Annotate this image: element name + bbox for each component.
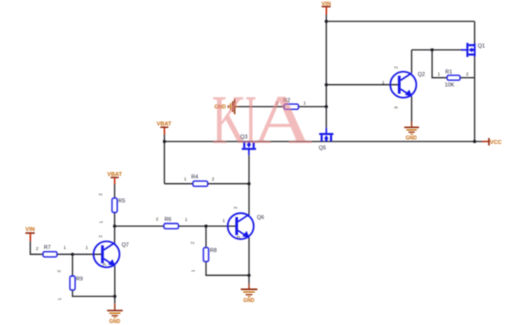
power VCC bar (488, 138, 490, 146)
resistor R7 body (43, 252, 57, 257)
wire Q3 drain down to Q6 collector (248, 155, 250, 215)
wire Q2 base (326, 84, 400, 86)
ground G2 earth bars (404, 127, 419, 135)
svg-text:R7: R7 (44, 245, 51, 251)
ground G4 below Q7 stub (114, 303, 115, 310)
ground G3 below Q6 stub (248, 284, 249, 289)
wire R6 pin1 to Q6 base (178, 225, 237, 227)
wire main horizontal rail VBAT to VCC (164, 141, 482, 143)
wire R8 bottom to Q6 emitter net (206, 262, 249, 276)
power VIN left bar (25, 232, 34, 234)
power VCC red wire segment (482, 141, 489, 142)
svg-text:2: 2 (212, 177, 215, 182)
wire Q6 emitter to ground (248, 237, 250, 283)
resistor R6 body (164, 224, 179, 229)
transistor Q3 nmos hanging below rail (242, 141, 256, 155)
junction R4 pin2 tee (247, 182, 250, 185)
junction Q7 emitter tee (113, 295, 116, 298)
wire R4 pin2 to Q3 net (208, 183, 249, 185)
svg-text:2: 2 (98, 235, 103, 238)
junction R5 bottom tee (113, 225, 116, 228)
ground G3 earth bars (241, 289, 258, 298)
resistor R4 body (193, 181, 208, 186)
svg-text:A: A (252, 81, 313, 159)
transistor Q1 nmos rotated gate-left (461, 43, 475, 57)
power VIN top red stub (326, 7, 328, 14)
wire Q2 collector (411, 50, 413, 73)
svg-text:Q5: Q5 (319, 146, 326, 152)
svg-text:1: 1 (57, 297, 62, 300)
svg-text:K: K (212, 80, 247, 158)
svg-text:3: 3 (394, 106, 399, 109)
resistor R8 body vertical (203, 248, 208, 262)
wire top rail VIN to Q1 (326, 20, 474, 22)
svg-text:1: 1 (223, 218, 226, 223)
junction drain vertical on VCC rail (473, 140, 476, 143)
wire VIN vertical down to Q5 gate (325, 14, 327, 128)
svg-text:1: 1 (63, 245, 66, 250)
svg-text:2: 2 (233, 206, 238, 209)
svg-text:1: 1 (191, 269, 196, 272)
power VBAT left bar (111, 177, 119, 178)
wire VBAT drop through rail down to R4 (163, 134, 165, 183)
wire R5 junction to R6 pin2 (115, 225, 164, 227)
ground G1 sideways earth bars (228, 99, 239, 114)
junction Q2 base on VIN net (325, 83, 328, 86)
transistor Q5 nmos on rail (319, 128, 333, 142)
wire R7 pin1 to Q7 base (57, 253, 103, 255)
svg-text:Q6: Q6 (257, 215, 264, 221)
svg-text:GND: GND (109, 319, 121, 325)
svg-text:2: 2 (36, 246, 39, 251)
svg-text:GND: GND (243, 298, 255, 304)
svg-text:3: 3 (102, 263, 107, 266)
wire R1 pin2 to drain vertical (460, 77, 474, 79)
svg-text:2: 2 (156, 217, 159, 222)
svg-text:R1: R1 (445, 70, 452, 76)
svg-text:1: 1 (99, 220, 104, 223)
wire VBAT2 to R5 top (114, 184, 116, 198)
svg-text:1: 1 (185, 217, 188, 222)
wire ground to R2 pin2 (238, 106, 284, 108)
wire R5 bottom through junction to Q7 collector (114, 213, 116, 244)
power VIN left red stub (30, 234, 32, 242)
junction VBAT corner on rail (163, 140, 166, 143)
svg-text:2: 2 (190, 241, 195, 244)
wire Q7 emitter to ground (114, 266, 116, 303)
transistor Q7 (94, 241, 120, 267)
ground G4 earth bars (107, 310, 123, 318)
wire Q2 emitter (411, 96, 413, 121)
svg-text:1: 1 (184, 177, 187, 182)
svg-text:VCC: VCC (490, 140, 502, 146)
svg-text:R4: R4 (191, 174, 198, 180)
svg-text:R8: R8 (210, 248, 217, 254)
junction Q6 emitter tee (247, 274, 250, 277)
wire R1 pin1 drop from gate net (432, 50, 447, 78)
svg-text:R6: R6 (165, 217, 172, 223)
wire R9 bottom to Q7 emitter net (73, 290, 115, 296)
power VBAT left red stub (114, 178, 116, 184)
transistor Q6 (228, 213, 254, 239)
svg-text:R9: R9 (76, 276, 83, 282)
resistor R1 10K body (447, 75, 460, 80)
transistor Q2 (390, 72, 416, 98)
svg-text:1: 1 (85, 245, 88, 250)
wire R2 pin1 to VIN net (299, 106, 327, 108)
wire Q1 gate net (412, 49, 462, 51)
junction VIN top tee (325, 20, 328, 23)
svg-text:2: 2 (98, 193, 103, 196)
junction R7 R9 tee (71, 253, 74, 256)
junction R1 drop on gate net (431, 48, 434, 51)
wire R4 pin1 lead (164, 183, 192, 185)
svg-text:GND: GND (406, 135, 418, 141)
resistor R2 body (284, 104, 298, 109)
svg-text:Q2: Q2 (418, 72, 425, 78)
svg-text:Q7: Q7 (122, 242, 129, 248)
wire right vertical above Q1 (474, 21, 476, 43)
wire R9 top lead (72, 254, 74, 275)
resistor R9 body vertical (70, 276, 75, 290)
ground G2 below Q2 stub (411, 122, 412, 127)
svg-text:1: 1 (438, 71, 441, 76)
svg-text:Q1: Q1 (478, 43, 485, 49)
wire VIN2 corner to R7 pin2 (30, 241, 43, 254)
svg-text:2: 2 (466, 71, 469, 76)
junction R2 pin1 on VIN net (325, 105, 328, 108)
power VBAT mid bar (160, 127, 168, 128)
power VIN top bar (322, 6, 331, 7)
wire R8 top lead from base net (205, 226, 207, 247)
junction R8 top tee (204, 225, 207, 228)
svg-text:10K: 10K (445, 83, 455, 89)
svg-text:R5: R5 (118, 199, 125, 205)
svg-text:3: 3 (236, 235, 241, 238)
svg-text:2: 2 (393, 66, 398, 69)
wire right vertical below Q1 to VCC rail (474, 56, 476, 141)
resistor R5 body vertical (112, 198, 117, 212)
svg-text:2: 2 (57, 269, 62, 272)
transistor Q1 drain-source vertical bar (474, 44, 476, 57)
power VBAT mid red stub (164, 128, 166, 135)
